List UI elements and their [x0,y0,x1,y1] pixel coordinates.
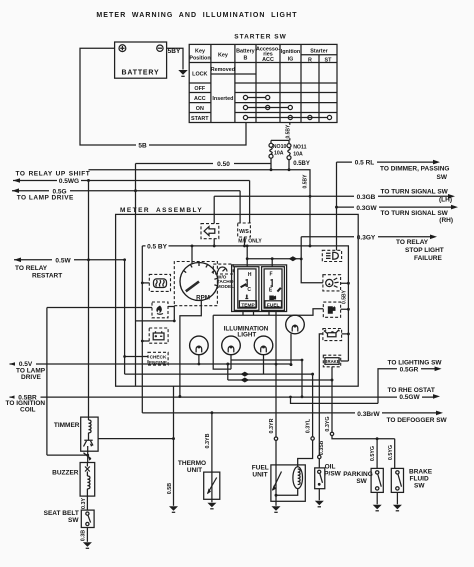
svg-text:LIGHT: LIGHT [237,332,256,339]
svg-text:0.5BY: 0.5BY [341,289,347,304]
wire 0.5G vertical to lighting feeder [135,164,137,386]
svg-text:0.5YG: 0.5YG [370,446,376,461]
indicator box fuel low [323,302,340,317]
svg-text:W/S: W/S [239,229,249,235]
svg-text:NO11: NO11 [293,144,306,150]
wire temp gauge top [246,245,249,267]
thermo unit [178,413,220,509]
temp gauge internals [239,272,256,308]
svg-text:TEMP: TEMP [241,302,255,308]
svg-text:0.3BrW: 0.3BrW [357,411,380,418]
indicator lamp box hot/choke [152,302,168,318]
wire 0.5YG brake fluid [388,439,395,469]
brake fluid switch [391,468,432,510]
starter switch contacts ON row [243,105,292,109]
svg-text:FAILURE: FAILURE [414,255,442,262]
svg-text:TO RELAY: TO RELAY [396,239,429,246]
svg-text:ACC: ACC [262,57,274,63]
illumination lamp L1 [190,336,209,355]
indicator box illumination room [323,275,341,291]
gauge bottom stubs to return bus [243,312,269,316]
svg-text:NO10: NO10 [273,144,287,150]
svg-text:0.3GB: 0.3GB [357,194,376,201]
svg-text:BRAKE: BRAKE [409,469,433,476]
svg-text:COIL: COIL [20,406,36,413]
svg-text:Battery: Battery [236,49,255,55]
starter switch table [189,34,337,123]
svg-text:CHECK: CHECK [150,355,167,360]
svg-text:0.3YG: 0.3YG [325,416,331,431]
svg-text:METER ASSEMBLY: METER ASSEMBLY [120,207,203,214]
starter switch contacts START row [243,115,331,119]
svg-text:5BY: 5BY [168,48,181,55]
svg-text:Inserted: Inserted [212,96,233,102]
meter assembly box [116,207,359,386]
wire bus C with connector [247,256,301,261]
wire 0.5YG parking [370,439,377,469]
arrow to lamp drive 0.5G [12,187,240,202]
svg-text:START: START [191,116,209,122]
wire 0.5B ground [167,386,178,512]
arrow rheostat brw line [6,387,441,413]
wire v301 bulb check [300,237,323,283]
svg-text:FUEL: FUEL [252,464,269,471]
svg-text:H: H [248,272,252,278]
wire seat belt ground 0.3B [81,528,92,549]
svg-text:LOCK: LOCK [192,71,207,77]
svg-text:DRIVE: DRIVE [21,374,42,381]
svg-text:SW: SW [68,517,79,524]
wire 0.5BY drop x310 [289,170,311,248]
arrow to turn signal RH 0.3GW [335,204,458,225]
rail R4 [226,363,333,383]
wire 0.3Sb oil pressure [318,334,325,468]
wires into W/S box [240,181,250,246]
svg-text:FLUID: FLUID [410,476,429,483]
illumination lamp L2 [222,336,241,355]
svg-text:0.50: 0.50 [217,161,230,168]
svg-text:M/T ONLY: M/T ONLY [238,239,262,245]
svg-text:0.3GY: 0.3GY [357,235,376,242]
svg-text:0.5BY: 0.5BY [293,161,310,167]
indicator box brake [323,355,340,367]
svg-text:Starter: Starter [310,48,328,54]
svg-text:TO LAMP DRIVE: TO LAMP DRIVE [17,195,74,202]
svg-text:TO DIMMER, PASSING: TO DIMMER, PASSING [380,166,449,173]
svg-text:TO DEFOGGER SW: TO DEFOGGER SW [387,417,448,424]
rail R3 [125,372,314,377]
svg-text:0.5WG: 0.5WG [59,178,79,185]
svg-text:STARTER SW: STARTER SW [234,34,287,41]
rail R2 [213,309,323,369]
svg-text:TO RELAY UP SHIFT: TO RELAY UP SHIFT [16,171,91,178]
wire rpm feed [191,246,193,264]
arrow defogger 0.3BrW [142,410,447,424]
tachometer RPM gauge [180,263,218,302]
svg-text:0.5GR: 0.5GR [400,367,419,374]
svg-text:0.5BY: 0.5BY [303,174,309,189]
svg-text:P/SW: P/SW [324,470,341,477]
arrow to turn signal LH 0.3GB [214,189,455,204]
arrow to lamp drive 0.5V rail [10,360,292,381]
arrow to lighting sw 0.5GR [289,359,442,403]
arrow to relay restart 0.5W [14,256,126,279]
svg-text:TO RELAY: TO RELAY [15,265,48,272]
svg-text:BUZZER: BUZZER [52,470,79,477]
svg-text:Key: Key [218,53,228,59]
battery B1 [115,42,167,78]
svg-text:SW: SW [437,174,448,181]
starter switch contacts ACC row [243,95,269,99]
wire fuel gauge bottom 0.3YR [269,312,278,441]
wire check engine feed [123,260,148,374]
wire 0.3YG brake warning [325,367,395,440]
wire battery positive 5B [80,48,246,149]
wire choke box right [136,306,176,323]
svg-text:0.3Sb: 0.3Sb [319,440,325,455]
illumination lamp L4 [286,315,305,334]
svg-text:PARKING: PARKING [343,471,373,478]
indicator box headlight [322,250,341,261]
ground battery [178,70,187,76]
svg-text:SW: SW [356,478,367,485]
wire 0.5BY right column [341,282,350,336]
arrow to dimmer passing sw 0.5RL [337,159,450,181]
wire battery negative 5BY [167,48,183,69]
svg-text:IG: IG [288,56,294,62]
svg-text:R: R [308,58,312,64]
svg-text:ST: ST [325,58,333,64]
oil pressure switch [315,463,342,506]
svg-text:ON: ON [196,106,204,112]
svg-text:OIL: OIL [325,463,336,470]
svg-text:B: B [243,56,247,62]
wire bus y170 [89,160,291,172]
title [96,12,297,19]
wire IG to fuses 0.5BY [286,123,293,141]
svg-text:TO LIGHTING SW: TO LIGHTING SW [388,359,443,366]
svg-text:RPM: RPM [196,294,210,301]
svg-text:0.5W: 0.5W [55,258,71,265]
svg-text:0.3GW: 0.3GW [356,205,377,212]
seat belt block arrow box [201,224,219,239]
svg-text:(LH): (LH) [439,197,452,204]
svg-text:OFF: OFF [194,86,205,92]
svg-text:Ignition: Ignition [281,49,300,55]
indicator lamp box rear defogger [149,274,170,291]
fuse NO11 10A [287,140,310,167]
svg-text:10A: 10A [274,150,284,156]
svg-text:0.5 BY: 0.5 BY [147,244,168,251]
svg-text:C: C [247,287,251,293]
svg-text:BATTERY: BATTERY [122,70,160,77]
svg-text:STOP LIGHT: STOP LIGHT [405,247,444,254]
svg-text:Removed: Removed [211,67,235,73]
wire 0.5BY bus A [142,242,348,361]
svg-text:0.3B: 0.3B [81,530,87,541]
wire 0.3YL [298,374,315,467]
arrow to relay up shift 0.5WG [13,171,250,186]
wire timer to 0.5B [98,437,175,440]
wire fuse NO10 output 0.50 [136,158,272,170]
svg-text:FUEL: FUEL [267,302,280,308]
svg-text:0.5YG: 0.5YG [388,445,394,460]
svg-text:TO TURN SIGNAL SW: TO TURN SIGNAL SW [381,210,449,217]
svg-text:F: F [269,271,272,277]
svg-text:TO TURN SIGNAL SW: TO TURN SIGNAL SW [381,189,449,196]
svg-text:TIMMER: TIMMER [54,422,80,429]
illumination light label [224,325,269,338]
dashed outline w/o tacho [174,262,234,306]
indicator lamp box charge [149,328,168,343]
parking switch [343,468,383,510]
svg-text:10A: 10A [293,151,303,157]
fuse NO10 10A [269,140,289,158]
wire fuel gauge top [271,257,274,266]
svg-text:SW: SW [414,483,425,490]
svg-text:UNIT: UNIT [187,467,202,474]
wire 0.5BY left drop to defogger lamp [141,246,213,414]
svg-text:BRAKE: BRAKE [324,359,339,364]
W/S box [238,223,263,245]
wire rpm output [178,300,201,398]
indicator box oil pressure [323,329,342,341]
buzzer [52,463,95,497]
timer [54,181,98,452]
seat belt switch [44,510,94,528]
svg-text:METER WARNING AND ILLUMINATION: METER WARNING AND ILLUMINATION LIGHT [96,12,297,19]
svg-text:Key: Key [195,49,205,55]
wire buzzer to seat belt sw 0.3Y [81,496,87,510]
svg-text:UNIT: UNIT [252,471,267,478]
wire 0.5BR vertical [47,308,152,456]
svg-text:0.3Y: 0.3Y [81,498,87,509]
svg-text:(RH): (RH) [439,217,453,224]
svg-text:0.5GW: 0.5GW [399,394,420,401]
wire left to buzzer junction [47,454,88,456]
wire charge box feed [141,340,149,343]
svg-text:0.5B: 0.5B [167,483,173,494]
svg-text:0.3YR: 0.3YR [269,418,275,433]
svg-text:0.3YL: 0.3YL [306,418,312,433]
svg-text:ACC: ACC [194,96,206,102]
lamp stubs to rails [198,334,293,374]
svg-text:0.3YB: 0.3YB [205,433,211,448]
wire timer to buzzer [84,451,92,462]
arrow to relay stop light failure 0.3GY [301,233,444,261]
wire headlight feed [336,162,338,250]
svg-text:RESTART: RESTART [32,272,62,279]
indicator box check engine [148,352,168,365]
wire seat belt arrow box [213,196,215,246]
svg-text:0.5 RL: 0.5 RL [355,160,375,167]
illumination lamp L3 [254,336,273,355]
svg-text:Position: Position [189,55,210,61]
temp fuel gauge cluster [232,265,287,312]
svg-text:5B: 5B [138,142,147,149]
fuel gauge internals [265,271,282,308]
fuel unit [252,440,305,512]
lamp bottom bus [231,359,303,399]
svg-text:0.5BY: 0.5BY [286,124,292,139]
